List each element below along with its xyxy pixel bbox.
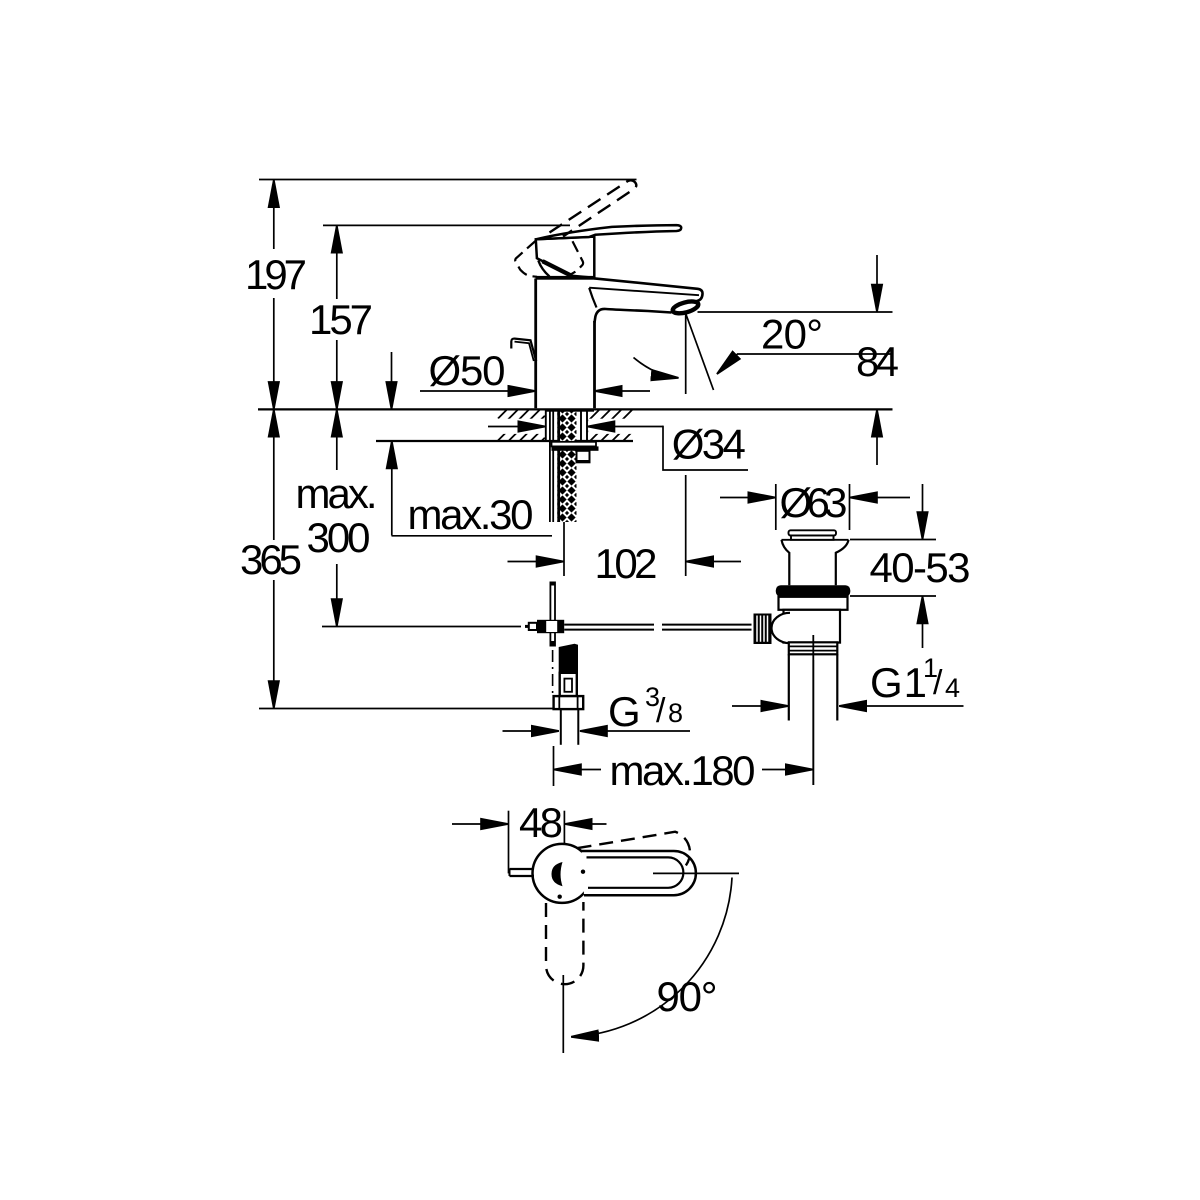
svg-text:40-53: 40-53	[870, 544, 971, 591]
svg-text:8: 8	[668, 698, 683, 728]
svg-text:48: 48	[519, 799, 563, 846]
svg-text:102: 102	[595, 540, 658, 587]
svg-text:G: G	[608, 688, 641, 735]
svg-text:Ø34: Ø34	[672, 421, 746, 468]
svg-text:197: 197	[245, 251, 307, 298]
svg-text:G1: G1	[870, 659, 927, 706]
svg-text:365: 365	[240, 536, 302, 583]
svg-text:90°: 90°	[657, 973, 718, 1020]
svg-text:/: /	[656, 692, 666, 730]
svg-text:84: 84	[856, 338, 899, 385]
svg-text:Ø50: Ø50	[429, 347, 506, 394]
svg-text:157: 157	[309, 296, 373, 343]
svg-text:Ø63: Ø63	[780, 479, 848, 526]
svg-text:/: /	[933, 664, 943, 702]
svg-text:max.: max.	[296, 470, 378, 517]
svg-text:max.30: max.30	[408, 491, 534, 538]
svg-text:4: 4	[945, 673, 960, 703]
svg-text:20°: 20°	[761, 311, 823, 358]
svg-text:max.180: max.180	[610, 747, 756, 794]
svg-text:300: 300	[307, 514, 371, 561]
